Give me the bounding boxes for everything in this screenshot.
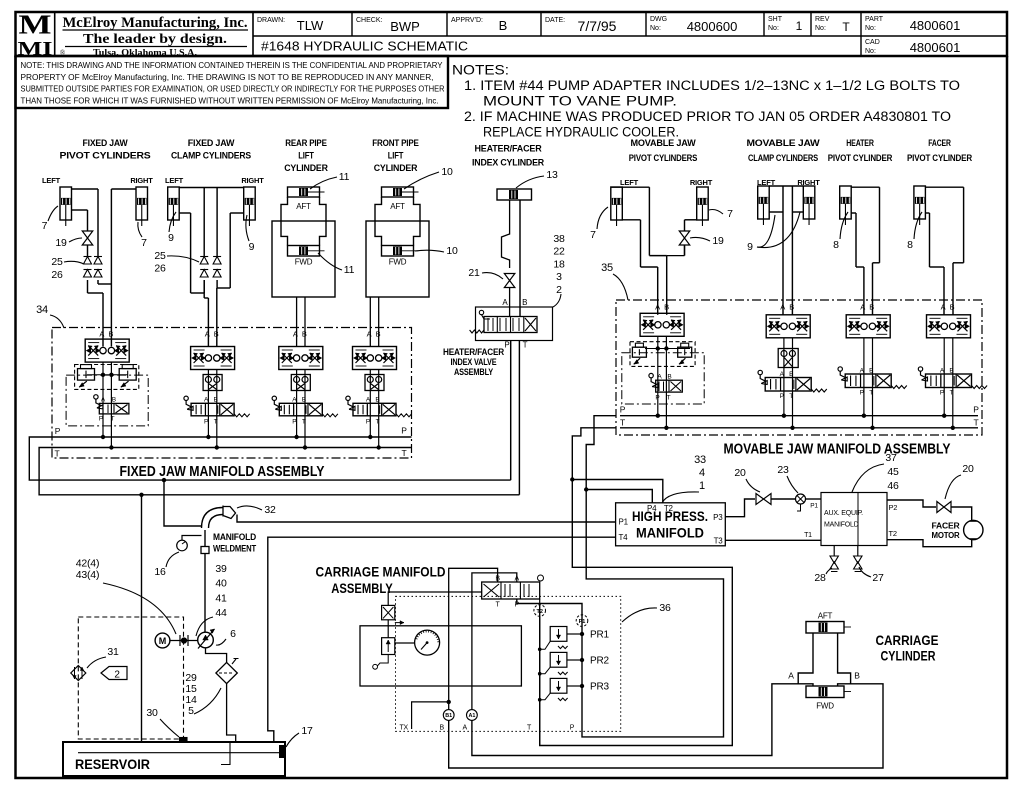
svg-text:P: P <box>515 602 520 609</box>
svg-text:41: 41 <box>215 592 227 604</box>
cylinder fixed jaw clamp right <box>244 187 256 220</box>
lever fj g1 <box>94 395 98 399</box>
wire T return loop (fj T bus to hf valve T) <box>39 448 519 495</box>
facer motor <box>964 520 983 539</box>
wire T2 to facer motor <box>887 540 972 547</box>
svg-text:LEFT: LEFT <box>165 176 184 185</box>
flag 2 <box>101 667 127 680</box>
cylinder front pipe lift <box>382 187 414 197</box>
title block frame <box>16 12 1008 56</box>
wire carriage valve T to T2 circle <box>539 599 541 605</box>
needle valve 19 fixed <box>82 231 93 238</box>
cylinder fixed jaw pivot right <box>136 187 148 220</box>
svg-text:32: 32 <box>264 504 276 516</box>
T4 line to reservoir <box>268 537 616 742</box>
svg-text:3: 3 <box>556 271 562 283</box>
carriage directional valve <box>482 582 540 599</box>
svg-text:21: 21 <box>468 267 480 279</box>
dash-dot subbox mj g1 <box>622 353 704 404</box>
svg-text:B: B <box>667 374 671 381</box>
svg-text:TLW: TLW <box>297 18 324 33</box>
svg-text:No:: No: <box>865 25 876 32</box>
carriage pressure gauge <box>415 630 440 655</box>
svg-text:7: 7 <box>590 229 596 241</box>
cylinder facer pivot <box>914 186 926 219</box>
wires mj g1 stack <box>657 336 659 415</box>
svg-text:1: 1 <box>699 480 705 492</box>
wire P4 branch <box>586 490 652 503</box>
svg-text:AFT: AFT <box>390 202 405 211</box>
svg-text:THAN THOSE FOR WHICH IT WAS FU: THAN THOSE FOR WHICH IT WAS FURNISHED WI… <box>21 96 439 105</box>
svg-text:39: 39 <box>215 563 227 575</box>
svg-text:B: B <box>499 18 508 33</box>
junction T to reservoir <box>139 493 143 497</box>
svg-text:43(4): 43(4) <box>76 569 100 581</box>
svg-text:A: A <box>463 725 468 732</box>
svg-text:19: 19 <box>712 235 724 247</box>
wire heater/facer valve P down <box>510 341 512 481</box>
svg-text:45: 45 <box>887 466 899 478</box>
svg-text:CYLINDER: CYLINDER <box>374 163 418 174</box>
svg-text:9: 9 <box>249 241 255 253</box>
fixed jaw manifold dash-dot box <box>52 328 412 459</box>
svg-text:38: 38 <box>553 233 565 245</box>
svg-text:RESERVOIR: RESERVOIR <box>75 757 150 772</box>
svg-text:FWD: FWD <box>295 258 313 267</box>
svg-text:2: 2 <box>556 284 562 296</box>
svg-text:PIVOT CYLINDER: PIVOT CYLINDER <box>907 153 972 164</box>
svg-text:P3: P3 <box>713 513 723 522</box>
svg-text:19: 19 <box>55 237 67 249</box>
svg-text:B: B <box>522 298 527 307</box>
svg-text:MOUNT TO VANE PUMP.: MOUNT TO VANE PUMP. <box>483 94 677 109</box>
wire fixed jaw clamp right bottom <box>230 212 244 214</box>
svg-text:PR2: PR2 <box>590 656 609 667</box>
svg-text:REV: REV <box>815 16 830 23</box>
svg-text:ASSEMBLY: ASSEMBLY <box>454 367 494 378</box>
confidentiality note box <box>16 56 449 108</box>
fj g1 directional valve <box>99 403 129 414</box>
wire facer pivot B <box>925 186 963 188</box>
svg-text:FIXED JAW MANIFOLD ASSEMBLY: FIXED JAW MANIFOLD ASSEMBLY <box>120 464 325 480</box>
wire fixed jaw clamp B <box>216 280 218 288</box>
relief valve PR2 <box>550 652 567 667</box>
svg-text:9: 9 <box>168 232 174 244</box>
wire T3 line <box>725 539 821 541</box>
svg-text:A1: A1 <box>468 713 475 719</box>
pump pressure riser <box>204 554 206 633</box>
svg-text:AFT: AFT <box>818 612 833 621</box>
svg-text:M: M <box>159 636 167 646</box>
needle valve 21 <box>504 274 514 281</box>
svg-text:The leader by design.: The leader by design. <box>83 32 227 47</box>
mj g1 directional valve <box>656 380 683 392</box>
movable jaw manifold P bus <box>620 415 978 417</box>
svg-text:P4: P4 <box>647 504 657 513</box>
svg-text:A: A <box>502 298 508 307</box>
cylinder movable jaw clamp left <box>758 186 770 219</box>
svg-text:28: 28 <box>814 572 826 584</box>
svg-text:B: B <box>112 397 116 404</box>
svg-text:36: 36 <box>659 602 671 614</box>
svg-text:FIXED JAW: FIXED JAW <box>83 138 128 149</box>
relief valve PR3 <box>550 678 567 693</box>
svg-text:B: B <box>869 303 874 312</box>
heat exchanger 31 <box>71 666 86 681</box>
svg-text:FWD: FWD <box>389 258 407 267</box>
title block dividers <box>54 12 56 56</box>
fixed jaw manifold P bus <box>52 436 412 438</box>
wire fixed jaw pivot top <box>72 188 99 190</box>
svg-text:A: A <box>788 671 794 681</box>
svg-text:18: 18 <box>553 258 565 270</box>
wire heater/facer A with jog <box>502 200 510 268</box>
svg-text:T: T <box>402 448 407 458</box>
filter outlet to reservoir <box>227 684 236 742</box>
svg-text:B: B <box>214 330 219 339</box>
svg-text:20: 20 <box>734 467 746 479</box>
dashed pump enclosure <box>78 617 183 739</box>
svg-text:6: 6 <box>230 628 236 640</box>
svg-text:FWD: FWD <box>816 702 834 711</box>
svg-text:35: 35 <box>601 262 613 274</box>
P1 test circle <box>576 615 588 627</box>
svg-text:PR3: PR3 <box>590 682 609 693</box>
svg-text:AUX. EQUIP.: AUX. EQUIP. <box>824 510 863 517</box>
svg-text:ASSEMBLY: ASSEMBLY <box>331 581 393 596</box>
svg-text:MANIFOLD: MANIFOLD <box>213 532 256 543</box>
B1 test circle <box>443 710 454 721</box>
svg-text:P1: P1 <box>619 518 629 527</box>
svg-text:B: B <box>950 303 955 312</box>
svg-text:LEFT: LEFT <box>42 176 61 185</box>
svg-text:P2: P2 <box>889 503 898 512</box>
svg-text:27: 27 <box>872 572 884 584</box>
cylinder fixed jaw pivot left <box>60 187 72 220</box>
svg-text:T2: T2 <box>889 529 897 538</box>
gauge 16 <box>177 540 188 551</box>
fixed jaw manifold T bus <box>52 447 412 449</box>
svg-text:20: 20 <box>962 463 974 475</box>
wire movable pivot top <box>611 186 650 188</box>
cylinder movable jaw pivot right <box>697 187 709 220</box>
carriage cylinder <box>806 622 844 634</box>
svg-text:T4: T4 <box>619 533 629 542</box>
svg-text:CYLINDER: CYLINDER <box>881 649 936 664</box>
wire fixed jaw clamp top <box>179 187 244 189</box>
check valves 25/26 clamp left <box>200 257 208 265</box>
svg-text:A: A <box>655 303 660 312</box>
junction P to pump <box>162 478 166 482</box>
svg-text:McElroy Manufacturing, Inc.: McElroy Manufacturing, Inc. <box>63 15 248 31</box>
svg-text:17: 17 <box>301 725 313 737</box>
svg-text:37: 37 <box>885 452 897 464</box>
svg-text:B: B <box>664 303 669 312</box>
svg-text:P: P <box>504 341 509 350</box>
svg-text:No:: No: <box>650 25 661 32</box>
wire facer pivot A <box>925 212 929 214</box>
svg-text:26: 26 <box>154 263 166 275</box>
svg-text:22: 22 <box>553 246 565 258</box>
counterbalance valve fj g1 right <box>119 369 136 381</box>
pump inlet line <box>206 648 227 663</box>
wire fixed jaw pivot B <box>111 188 136 190</box>
svg-text:SHT: SHT <box>768 16 783 23</box>
wire movable clamp top <box>769 185 803 187</box>
relief valve PR1 <box>550 627 567 642</box>
svg-text:PIVOT CYLINDERS: PIVOT CYLINDERS <box>60 151 151 162</box>
aux equip manifold box <box>821 493 887 546</box>
svg-text:APPRV'D:: APPRV'D: <box>451 17 483 24</box>
check valves 25/26 clamp right <box>213 257 221 265</box>
wire carriage valve B to B1 <box>449 568 498 709</box>
wire heater/facer B <box>519 200 521 317</box>
svg-text:P: P <box>570 725 575 732</box>
svg-text:T2: T2 <box>664 504 674 513</box>
cylinder heater pivot <box>840 186 852 219</box>
cylinder heater/facer index <box>497 189 532 200</box>
svg-text:T: T <box>523 341 528 350</box>
manifold weldment elbow <box>202 508 224 529</box>
svg-text:40: 40 <box>215 578 227 590</box>
svg-text:B: B <box>302 330 307 339</box>
wires fj g1 stack <box>102 362 104 437</box>
wire heater pivot A <box>851 212 856 214</box>
dashed counterbalance box mj g1 <box>630 342 695 367</box>
svg-text:B: B <box>376 330 381 339</box>
suction strainer 30 <box>180 738 188 743</box>
svg-text:MANIFOLD: MANIFOLD <box>824 522 859 529</box>
carriage inner solid box <box>360 626 521 686</box>
svg-text:P: P <box>55 426 61 436</box>
svg-text:CAD: CAD <box>865 39 880 46</box>
wire reducing valve to gauge <box>395 642 415 644</box>
svg-text:MOVABLE JAW: MOVABLE JAW <box>631 138 696 149</box>
reservoir <box>63 742 285 776</box>
svg-text:B: B <box>440 725 445 732</box>
heater/facer index valve assembly box <box>476 307 553 341</box>
svg-text:No:: No: <box>865 48 876 55</box>
svg-text:7: 7 <box>727 208 733 220</box>
svg-text:DWG: DWG <box>650 16 667 23</box>
svg-text:11: 11 <box>344 264 355 276</box>
movable jaw manifold T bus <box>620 427 978 429</box>
svg-text:WELDMENT: WELDMENT <box>213 544 256 555</box>
counterbalance valve fj g1 left <box>78 369 95 381</box>
svg-text:T: T <box>55 449 60 459</box>
svg-text:LIFT: LIFT <box>298 151 314 162</box>
svg-text:T1: T1 <box>804 532 812 539</box>
svg-text:FACER: FACER <box>932 522 960 531</box>
needle valve 19 movable <box>679 231 690 238</box>
svg-text:B: B <box>854 671 860 681</box>
heater/facer directional valve <box>484 317 537 333</box>
svg-text:P: P <box>204 419 208 426</box>
svg-text:P: P <box>401 426 407 436</box>
svg-text:7: 7 <box>42 220 48 232</box>
svg-text:DRAWN:: DRAWN: <box>257 17 285 24</box>
svg-text:T3: T3 <box>714 537 724 546</box>
svg-text:CLAMP CYLINDERS: CLAMP CYLINDERS <box>748 153 818 164</box>
svg-text:REAR PIPE: REAR PIPE <box>285 138 327 149</box>
svg-text:34: 34 <box>36 304 48 316</box>
wire P supply loop (fj P bus to hf valve P) <box>29 437 510 480</box>
svg-text:10: 10 <box>441 166 453 178</box>
svg-text:FIXED JAW: FIXED JAW <box>188 138 235 149</box>
dashed counterbalance box fj g1 <box>75 365 139 390</box>
wire movable jaw P to P4 and carriage <box>517 416 724 737</box>
svg-text:MOTOR: MOTOR <box>932 531 960 540</box>
svg-text:8: 8 <box>833 239 839 251</box>
cylinder rear pipe lift <box>288 187 320 197</box>
pressure reducing valve carriage <box>382 605 395 619</box>
svg-text:PROPERTY OF McElroy Manufactur: PROPERTY OF McElroy Manufacturing, Inc. … <box>21 73 434 82</box>
svg-text:1. ITEM #44 PUMP ADAPTER INCL: 1. ITEM #44 PUMP ADAPTER INCLUDES 1/2–13… <box>464 78 960 93</box>
svg-text:P: P <box>860 390 864 397</box>
drain valve 28 <box>833 546 835 557</box>
svg-text:B: B <box>789 303 794 312</box>
ball valve 20 left <box>756 494 771 505</box>
svg-text:LIFT: LIFT <box>388 151 404 162</box>
wire carriage valve A to A1 <box>472 573 517 710</box>
svg-text:P: P <box>366 419 370 426</box>
wire P3 line <box>725 499 755 517</box>
wire A1 to carriage cylinder A <box>472 684 798 756</box>
svg-text:P: P <box>620 405 626 415</box>
svg-text:T: T <box>667 395 671 402</box>
svg-text:B1: B1 <box>445 713 452 719</box>
svg-text:4800601: 4800601 <box>910 18 961 33</box>
motor M <box>155 633 170 648</box>
svg-text:4: 4 <box>699 467 705 479</box>
svg-text:A: A <box>860 303 865 312</box>
wire B1 to carriage cylinder B <box>449 684 883 768</box>
svg-text:NOTES:: NOTES: <box>452 62 509 78</box>
svg-text:HEATER/FACER: HEATER/FACER <box>475 144 542 155</box>
P1 line to high press manifold <box>237 515 616 523</box>
counterbalance valve mj g1 left <box>632 347 646 357</box>
svg-text:16: 16 <box>154 566 166 578</box>
A1 test circle <box>467 710 478 721</box>
svg-text:M: M <box>19 10 52 40</box>
svg-text:13: 13 <box>546 169 558 181</box>
TX drain line <box>412 702 449 729</box>
svg-text:P1: P1 <box>579 619 586 625</box>
svg-text:No:: No: <box>768 25 779 32</box>
svg-text:31: 31 <box>107 646 119 658</box>
svg-text:SUBMITTED OUTSIDE PARTIES FOR: SUBMITTED OUTSIDE PARTIES FOR EXAMINATIO… <box>21 85 445 94</box>
svg-text:CHECK:: CHECK: <box>356 17 383 24</box>
wire P2 to facer motor <box>887 500 936 507</box>
svg-text:10: 10 <box>446 245 458 257</box>
wire fixed jaw clamp A <box>179 212 190 214</box>
ball valve 20 right <box>937 502 951 513</box>
svg-text:A: A <box>293 330 298 339</box>
svg-text:No:: No: <box>815 25 826 32</box>
spring heater/facer valve <box>470 330 484 333</box>
svg-text:46: 46 <box>887 480 899 492</box>
pump coupling 44 <box>170 640 198 642</box>
check valves 25/26 fixed pivot left <box>84 257 92 265</box>
svg-text:MOVABLE JAW MANIFOLD ASSEMBLY: MOVABLE JAW MANIFOLD ASSEMBLY <box>724 442 951 458</box>
svg-text:A: A <box>205 330 210 339</box>
svg-text:FACER: FACER <box>928 138 951 149</box>
svg-text:#1648 HYDRAULIC SCHEMATIC: #1648 HYDRAULIC SCHEMATIC <box>261 39 468 54</box>
svg-text:7/7/95: 7/7/95 <box>578 18 617 34</box>
svg-text:RIGHT: RIGHT <box>130 176 153 185</box>
svg-text:T2: T2 <box>536 609 542 615</box>
filter 5 <box>216 662 237 683</box>
svg-text:30: 30 <box>146 707 158 719</box>
drain valve 27 <box>857 546 859 557</box>
svg-text:7: 7 <box>141 237 147 249</box>
pump 6 <box>198 632 214 648</box>
check valves 25/26 fixed pivot right <box>94 257 102 265</box>
svg-text:P: P <box>973 405 979 415</box>
wire movable pivot A <box>622 219 640 221</box>
svg-text:MANIFOLD: MANIFOLD <box>636 526 704 541</box>
wire T2 branch <box>572 480 663 503</box>
svg-text:BWP: BWP <box>390 19 420 34</box>
svg-text:PIVOT CYLINDER: PIVOT CYLINDER <box>828 153 893 164</box>
svg-text:2: 2 <box>114 670 120 681</box>
svg-text:CARRIAGE MANIFOLD: CARRIAGE MANIFOLD <box>316 565 446 580</box>
svg-text:1: 1 <box>796 19 803 33</box>
svg-text:INDEX CYLINDER: INDEX CYLINDER <box>472 158 544 169</box>
svg-text:44: 44 <box>215 607 227 619</box>
svg-text:PIVOT CYLINDERS: PIVOT CYLINDERS <box>629 153 698 164</box>
lever heater/facer valve <box>479 310 483 314</box>
svg-text:4800601: 4800601 <box>910 40 961 55</box>
svg-text:42(4): 42(4) <box>76 558 100 570</box>
svg-text:25: 25 <box>154 250 166 262</box>
svg-text:CLAMP CYLINDERS: CLAMP CYLINDERS <box>171 151 251 162</box>
wire movable jaw T to T2 and carriage <box>540 428 733 746</box>
svg-text:8: 8 <box>907 239 913 251</box>
lever mj g1 <box>649 373 653 377</box>
wire movable pivot right bottom <box>685 219 697 221</box>
dash-dot subbox fj g1 <box>66 375 148 426</box>
svg-text:CARRIAGE: CARRIAGE <box>876 633 939 648</box>
svg-text:2. IF MACHINE WAS PRODUCED PR: 2. IF MACHINE WAS PRODUCED PRIOR TO JAN … <box>464 109 951 124</box>
movable jaw manifold dash-dot box <box>616 300 982 435</box>
svg-text:9: 9 <box>747 241 753 253</box>
counterbalance valve mj g1 right <box>678 347 692 357</box>
svg-text:P: P <box>292 419 296 426</box>
wire fixed jaw pivot A <box>72 209 88 211</box>
wire movable clamp bottoms <box>769 211 783 213</box>
svg-text:RIGHT: RIGHT <box>241 176 264 185</box>
svg-text:5: 5 <box>188 705 194 717</box>
cylinder movable jaw clamp right <box>803 186 815 219</box>
svg-text:T: T <box>974 418 979 428</box>
svg-text:RIGHT: RIGHT <box>690 178 713 187</box>
T2 test circle <box>534 605 546 617</box>
cylinder fixed jaw clamp left <box>168 187 180 220</box>
svg-text:33: 33 <box>694 454 706 466</box>
wire heater pivot B <box>851 186 879 188</box>
wire heater/facer valve T down <box>518 341 520 495</box>
svg-text:A: A <box>99 330 104 339</box>
svg-text:A: A <box>780 303 785 312</box>
svg-text:A: A <box>367 330 372 339</box>
svg-text:23: 23 <box>777 464 789 476</box>
svg-text:DATE:: DATE: <box>545 17 565 24</box>
svg-text:T: T <box>842 20 850 34</box>
svg-text:CYLINDER: CYLINDER <box>284 163 328 174</box>
svg-text:PR1: PR1 <box>590 630 609 641</box>
svg-text:HEATER: HEATER <box>846 138 874 149</box>
